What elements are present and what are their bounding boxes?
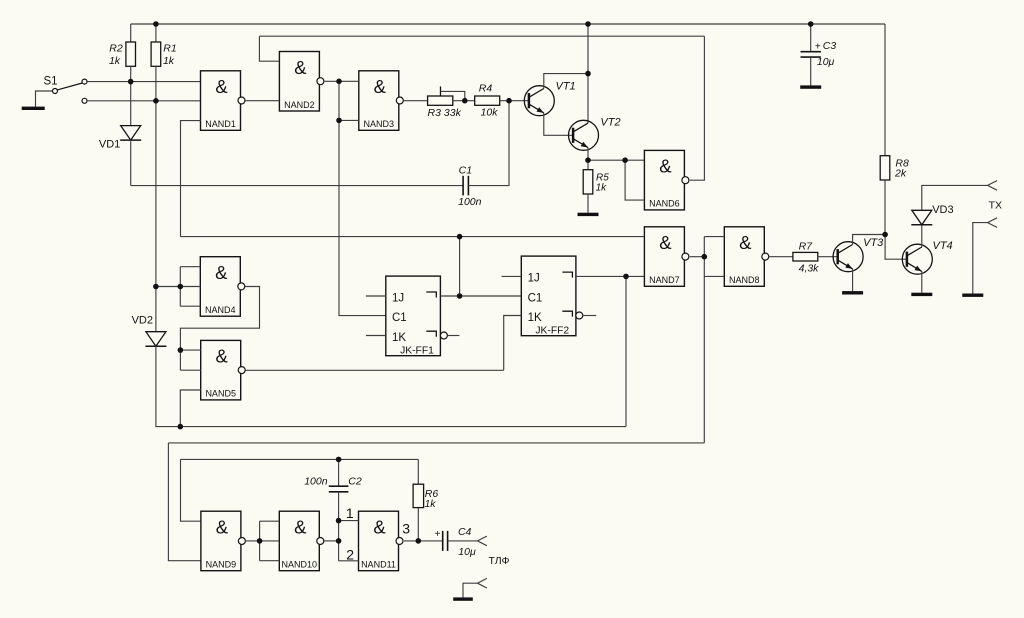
capacitor C1 100n — [462, 176, 464, 196]
ground below R5 — [578, 213, 599, 216]
node R6 / NAND11 output — [416, 538, 422, 544]
node NAND10 output / C2 column — [336, 538, 342, 544]
wire NAND1 output to NAND2 input — [245, 100, 280, 102]
svg-text:C2: C2 — [348, 476, 362, 488]
node R1 / S1 wire — [153, 98, 159, 104]
wire lower antenna to ground — [973, 223, 988, 294]
svg-text:R4: R4 — [479, 83, 493, 95]
svg-text:&: & — [739, 232, 752, 253]
ground below lower antenna — [962, 294, 983, 297]
diode VD3 — [912, 210, 932, 225]
svg-text:1K: 1K — [528, 312, 542, 324]
NAND gate NAND6 — [644, 150, 684, 210]
wire JK-FF1 output to JK-FF2 C1 — [440, 295, 521, 297]
wire NAND4 input tie — [179, 267, 181, 307]
wire JK-FF1 1K input stub — [366, 335, 386, 337]
capacitor C3 10u — [810, 24, 812, 51]
wire NAND2 output branch down to JK-FF1 C1 input — [339, 81, 386, 315]
node R1 column / NAND4 feed — [153, 284, 159, 290]
wire C4 to phones — [448, 540, 478, 542]
node feedback row / JK-FF1 output — [457, 234, 463, 240]
wire JK-FF2 output to NAND7 input — [576, 275, 645, 277]
wire JK-FF1 output up to feedback row — [459, 237, 461, 296]
ground below phones — [453, 597, 473, 600]
svg-text:1K: 1K — [392, 332, 406, 344]
node NAND2 output — [336, 79, 342, 85]
wire VD1 to C1 line — [130, 140, 132, 186]
node JK-FF2 output / NAND7 input — [623, 274, 629, 280]
svg-text:VT2: VT2 — [600, 117, 620, 129]
svg-text:VT1: VT1 — [556, 81, 576, 93]
wire to NAND8 bottom input — [704, 275, 724, 277]
wire JK-FF1 1K output stub — [448, 335, 460, 337]
wire NAND7 output column — [703, 237, 705, 443]
svg-text:&: & — [216, 517, 229, 538]
node NAND5 input tie — [178, 347, 184, 353]
wire VT4 collector to VD3 — [921, 225, 923, 248]
wire VT1 collector to supply column — [544, 74, 588, 89]
node NAND9 output — [257, 538, 263, 544]
node top rail / R1 — [153, 21, 159, 27]
wire NAND8 output to R7 — [769, 256, 793, 258]
NAND gate NAND9 — [201, 511, 241, 571]
NAND gate NAND1 — [201, 71, 241, 131]
capacitor C2 100n — [338, 459, 340, 485]
svg-text:1J: 1J — [528, 273, 540, 285]
wire feedback row to NAND7 input — [181, 236, 645, 238]
node VT2 emitter / R5 — [585, 157, 591, 163]
node R2 / S1 wire — [128, 79, 134, 85]
svg-text:100n: 100n — [458, 196, 482, 208]
resistor R5 1k — [587, 160, 589, 170]
svg-text:NAND4: NAND4 — [205, 305, 236, 315]
resistor R6 1k — [417, 459, 419, 484]
svg-text:3: 3 — [402, 520, 410, 536]
wire top supply rail — [131, 23, 885, 25]
wire top rail down to R8 — [884, 24, 886, 156]
svg-text:&: & — [216, 346, 229, 367]
svg-text:VD1: VD1 — [99, 139, 120, 151]
NAND gate NAND2 — [279, 52, 319, 112]
svg-text:TX: TX — [989, 200, 1002, 212]
JK flip-flop JK-FF1 — [386, 276, 441, 356]
resistor R8 2k — [880, 156, 890, 180]
resistor R7 4.3k — [793, 252, 818, 261]
svg-text:C4: C4 — [458, 526, 472, 538]
wire VT1 emitter to VT2 base — [544, 113, 573, 135]
svg-text:&: & — [294, 57, 307, 78]
wire NAND1 third input feedback — [181, 121, 201, 237]
wire NAND11 output row — [404, 540, 442, 542]
wire inner loop horizontal (R6 feedback row) — [181, 458, 419, 460]
svg-text:NAND2: NAND2 — [284, 100, 315, 110]
wire rail2 to NAND2 top input — [259, 36, 279, 61]
wire S1 lower contact to NAND1 input — [87, 100, 201, 102]
svg-text:VD3: VD3 — [932, 204, 953, 216]
wire VT4 emitter to ground — [921, 271, 923, 292]
svg-text:10μ: 10μ — [458, 546, 476, 558]
svg-text:1J: 1J — [392, 292, 404, 304]
wire VD3 up and to TX antenna — [922, 185, 988, 210]
node NAND3 lower input — [336, 118, 342, 124]
node NAND6 input tie — [622, 157, 628, 163]
wire to NAND11 pin2 — [339, 560, 359, 562]
svg-text:R2: R2 — [109, 42, 123, 54]
wire NAND5 third input from bottom row — [180, 390, 200, 427]
wire to NAND11 pin1 — [339, 520, 359, 522]
resistor R3 (trimmer) 33k — [428, 96, 453, 105]
NAND gate NAND4 — [200, 257, 240, 317]
node top rail / VT collector column — [585, 21, 591, 27]
svg-text:NAND7: NAND7 — [649, 275, 680, 285]
wire node to VT4 base — [885, 235, 907, 260]
wire lower phone to ground — [463, 583, 478, 597]
svg-text:10μ: 10μ — [817, 56, 835, 68]
NAND gate NAND3 — [359, 71, 399, 131]
svg-text:NAND5: NAND5 — [205, 389, 236, 399]
svg-text:1k: 1k — [109, 55, 121, 67]
svg-text:4,3k: 4,3k — [799, 263, 820, 275]
svg-text:&: & — [659, 156, 672, 177]
wire second rail (NAND6 output feedback to NAND2 input) — [259, 35, 704, 37]
svg-text:1: 1 — [346, 505, 354, 521]
wire JK-FF2 1K input from NAND5 output — [504, 316, 522, 371]
wire R4 to VT1 base — [500, 100, 529, 102]
switch S1 — [36, 91, 53, 107]
wire branch to NAND3 lower input — [339, 119, 359, 121]
wire NAND4 output to NAND5 inputs — [180, 287, 259, 351]
wire VD2 to bottom horizontal — [156, 346, 626, 427]
svg-text:&: & — [659, 232, 672, 253]
svg-text:JK-FF1: JK-FF1 — [400, 345, 434, 356]
svg-text:2: 2 — [346, 546, 354, 562]
node NAND4 input tie — [178, 284, 184, 290]
wire R8 to VT3/VT4 node — [884, 180, 886, 235]
svg-text:1k: 1k — [163, 55, 175, 67]
svg-text:JK-FF2: JK-FF2 — [535, 325, 569, 336]
wire VT2 emitter down to R5 node — [587, 148, 589, 161]
svg-text:ТЛФ: ТЛФ — [489, 555, 510, 567]
ground below VT4 — [911, 293, 932, 296]
node R4 / VT1 base / C1 — [506, 98, 512, 104]
ground at S1 — [22, 107, 45, 110]
antenna TLF lower — [478, 578, 487, 588]
diode VD1 — [121, 126, 141, 141]
svg-text:+: + — [815, 41, 821, 52]
wire supply column to VT2 collector — [587, 24, 589, 123]
wire JK-FF1 1J input stub — [366, 295, 386, 297]
node NAND5 third input / bottom row — [178, 424, 184, 430]
ground below C3 — [800, 85, 821, 88]
node R3 wiper — [462, 98, 468, 104]
svg-text:&: & — [215, 76, 228, 97]
wire NAND10 output to node — [324, 540, 339, 542]
wire NAND7 output node — [690, 256, 705, 258]
antenna TX lower — [988, 218, 997, 228]
wire NAND5 input tie — [179, 350, 181, 370]
transistor VT4 — [902, 244, 932, 274]
svg-text:NAND10: NAND10 — [282, 560, 318, 570]
svg-text:C1: C1 — [392, 312, 407, 324]
svg-text:VD2: VD2 — [132, 315, 153, 327]
svg-text:10k: 10k — [481, 107, 499, 119]
svg-text:NAND3: NAND3 — [364, 119, 395, 129]
wire NAND10 input tie — [259, 521, 261, 561]
wire VT3 collector to node — [853, 235, 886, 245]
NAND gate NAND8 — [724, 227, 764, 286]
wire VT3 emitter to ground — [852, 269, 854, 291]
wire NAND5 output to JK-FF2 1K branch — [245, 369, 503, 371]
svg-text:R1: R1 — [163, 42, 176, 54]
transistor VT3 — [833, 242, 863, 272]
wire NAND2 output to NAND3 inputs — [324, 80, 359, 82]
svg-text:C1: C1 — [528, 292, 543, 304]
svg-text:C1: C1 — [459, 165, 472, 177]
node NAND7 output — [702, 254, 708, 260]
node JK-FF1 output row — [457, 293, 463, 299]
antenna TX upper — [988, 181, 997, 191]
svg-text:C3: C3 — [823, 40, 837, 52]
wire NAND9 output to NAND10 inputs — [245, 540, 279, 542]
wire R1 column to NAND4 inputs — [156, 286, 180, 288]
wire C1 left branch — [131, 185, 463, 187]
wire to NAND8 top input — [704, 236, 724, 238]
wire up to NAND7 input row — [625, 276, 627, 426]
svg-text:NAND9: NAND9 — [206, 560, 237, 570]
wire NAND3 output to R3 — [403, 100, 427, 102]
antenna TLF upper — [478, 536, 487, 546]
svg-text:2k: 2k — [894, 168, 907, 180]
wire NAND6 output up to rail2 — [690, 36, 705, 180]
node C2 top / inner loop — [336, 457, 342, 463]
resistor R2 — [130, 24, 132, 42]
NAND gate NAND10 — [279, 511, 319, 571]
svg-text:1k: 1k — [596, 183, 608, 194]
svg-text:&: & — [215, 262, 228, 283]
wire R1 down to VD2 — [155, 66, 157, 331]
node R8 / VT3 collector / VT4 base — [882, 232, 888, 238]
svg-text:NAND6: NAND6 — [649, 199, 680, 209]
svg-text:NAND11: NAND11 — [361, 560, 396, 570]
wire R7 to VT3 base — [818, 256, 838, 258]
ground below VT3 — [842, 291, 863, 294]
wire R5 node to NAND6 input — [588, 159, 644, 161]
svg-text:&: & — [294, 517, 307, 538]
svg-text:S1: S1 — [43, 76, 57, 88]
NAND gate NAND5 — [201, 340, 241, 400]
wire R2 to VD1 — [130, 82, 132, 126]
svg-text:VT3: VT3 — [863, 237, 884, 249]
svg-text:&: & — [373, 517, 386, 538]
wire JK-FF2 1J input stub — [502, 275, 522, 277]
wire inner loop to NAND9 top input — [181, 459, 201, 521]
diode VD2 — [146, 332, 166, 347]
resistor R4 10k — [475, 96, 500, 105]
svg-text:NAND1: NAND1 — [205, 119, 236, 129]
node top rail / C3 — [808, 21, 814, 27]
svg-text:R3 33k: R3 33k — [428, 107, 462, 119]
NAND gate NAND7 — [644, 227, 684, 286]
capacitor C4 10u — [442, 531, 444, 551]
transistor VT2 — [569, 120, 599, 150]
wire NAND7 output down to oscillator loop — [168, 442, 704, 444]
NAND gate NAND11 — [359, 511, 399, 571]
transistor VT1 — [524, 86, 554, 116]
wire C1 right branch up to VT1 base node — [468, 101, 509, 186]
wire NAND6 lower input tie — [625, 160, 644, 200]
svg-text:R7: R7 — [799, 240, 814, 252]
node C2 bottom / NAND11 pin1 — [336, 518, 342, 524]
wire JK-FF2 1K output stub — [583, 315, 596, 317]
node VT1 collector — [585, 71, 591, 77]
JK flip-flop JK-FF2 — [521, 256, 576, 336]
resistor R1 — [155, 24, 157, 42]
svg-text:VT4: VT4 — [933, 240, 953, 252]
svg-text:100n: 100n — [304, 476, 328, 488]
svg-text:NAND8: NAND8 — [729, 275, 760, 285]
wire outer loop to NAND9 bottom input — [168, 443, 201, 561]
svg-text:1k: 1k — [424, 498, 436, 510]
svg-text:&: & — [374, 76, 387, 97]
svg-text:+: + — [435, 529, 441, 540]
wire R3 to R4 — [453, 100, 475, 102]
wire S1 upper contact to NAND1 input — [87, 81, 201, 83]
